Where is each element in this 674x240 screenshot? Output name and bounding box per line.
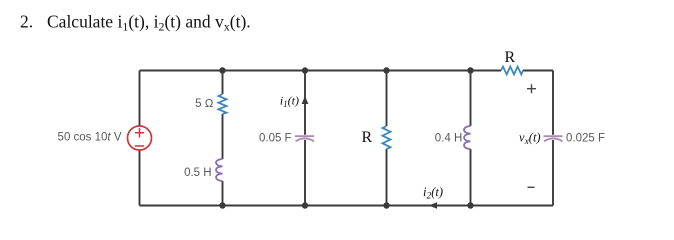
- svg-text:vx(t): vx(t): [519, 131, 541, 148]
- svg-text:Calculate i1(t), i2(t) and vx(: Calculate i1(t), i2(t) and vx(t).: [47, 12, 251, 34]
- svg-text:50 cos 10t V: 50 cos 10t V: [58, 132, 122, 144]
- svg-text:R: R: [362, 129, 373, 146]
- svg-text:i2(t): i2(t): [423, 185, 443, 202]
- svg-text:0.5 H: 0.5 H: [184, 167, 212, 179]
- svg-text:R: R: [505, 49, 516, 66]
- svg-text:2.: 2.: [20, 12, 33, 32]
- svg-text:0.4 H: 0.4 H: [435, 132, 463, 144]
- svg-text:i1(t): i1(t): [280, 94, 299, 110]
- svg-text:5 Ω: 5 Ω: [195, 98, 214, 110]
- svg-text:0.025 F: 0.025 F: [566, 132, 605, 144]
- svg-text:0.05 F: 0.05 F: [259, 133, 292, 145]
